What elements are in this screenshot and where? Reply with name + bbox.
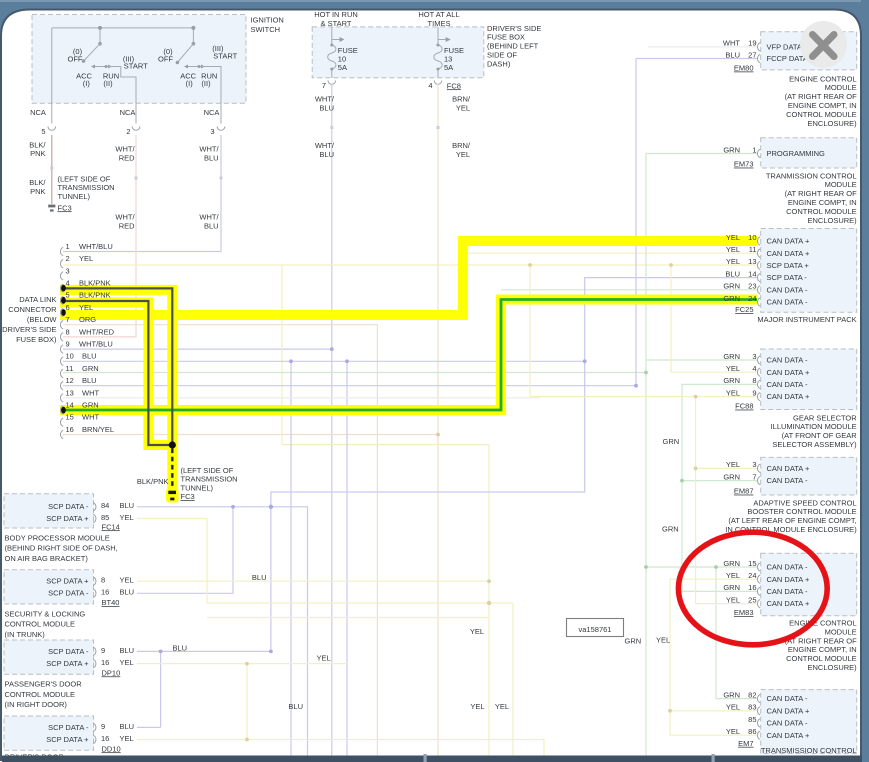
- svg-text:(IN TRUNK): (IN TRUNK): [5, 630, 46, 639]
- svg-text:BLU: BLU: [82, 376, 97, 385]
- wire BRN/YEL DLC pin16: [63, 434, 438, 436]
- svg-text:VFP DATA: VFP DATA: [767, 43, 802, 52]
- wire BLU EM80 pin27: [636, 59, 757, 386]
- svg-text:BLK/: BLK/: [29, 178, 46, 187]
- svg-text:(LEFT SIDE OF: (LEFT SIDE OF: [58, 174, 111, 183]
- svg-text:GRN: GRN: [723, 352, 740, 361]
- svg-text:85: 85: [748, 715, 756, 724]
- body processor module FC14 pin 84 BLU: [48, 501, 134, 511]
- svg-text:YEL: YEL: [726, 571, 740, 580]
- driver's door control module DD10 description: [5, 753, 65, 762]
- svg-text:WHT/: WHT/: [115, 145, 135, 154]
- svg-text:9: 9: [752, 388, 756, 397]
- wire GRN EM83 pin15 branch: [646, 566, 757, 568]
- junction YEL SCP plus: [245, 579, 491, 741]
- svg-text:CAN DATA +: CAN DATA +: [767, 575, 810, 584]
- ignition switch 2 pivot: [191, 26, 195, 46]
- svg-text:2: 2: [126, 127, 130, 136]
- ground FC3 2 labels: [137, 466, 238, 501]
- DLC pin 13 WHT: [60, 388, 99, 402]
- wire ORG DLC pin7: [63, 325, 377, 756]
- junction BLU door modules: [159, 650, 273, 654]
- svg-text:9: 9: [101, 646, 105, 655]
- major instrument pack connector FC25 pin BLU 14: [725, 269, 807, 282]
- svg-text:25: 25: [748, 595, 756, 604]
- passenger's door control module DP10 dashed box: [4, 640, 94, 674]
- svg-text:YEL: YEL: [120, 513, 134, 522]
- passenger's door control module DP10 pin 16 YEL: [46, 658, 134, 668]
- svg-text:19: 19: [748, 39, 756, 48]
- svg-text:CONTROL MODULE: CONTROL MODULE: [786, 207, 857, 216]
- svg-text:YEL: YEL: [120, 576, 134, 585]
- svg-text:YEL: YEL: [317, 653, 331, 662]
- NCA label pin 5: [30, 108, 46, 117]
- ignition switch 1 labels: [68, 47, 149, 88]
- major instrument pack connector FC25 pin YEL 11: [726, 245, 810, 258]
- svg-text:EM73: EM73: [734, 160, 754, 169]
- svg-text:5A: 5A: [338, 63, 347, 72]
- svg-text:14: 14: [66, 401, 74, 410]
- svg-text:13: 13: [748, 257, 756, 266]
- svg-text:HOT AT ALL: HOT AT ALL: [418, 10, 459, 19]
- svg-text:SIDE OF: SIDE OF: [487, 51, 517, 60]
- svg-text:YEL: YEL: [726, 364, 740, 373]
- adaptive speed control booster control module EM87 pin YEL 3: [726, 460, 810, 473]
- svg-text:SCP DATA +: SCP DATA +: [46, 577, 89, 586]
- svg-text:YEL: YEL: [456, 150, 470, 159]
- svg-text:12: 12: [66, 376, 74, 385]
- svg-text:BT40: BT40: [102, 598, 120, 607]
- svg-text:BLU: BLU: [120, 588, 135, 597]
- svg-text:GRN: GRN: [723, 294, 740, 303]
- DLC pin 5 terminal: [61, 297, 66, 304]
- DLC pin 7 ORG: [60, 315, 96, 329]
- gear selector illumination module FC88 pin GRN 8: [723, 376, 808, 389]
- svg-text:YEL: YEL: [726, 245, 740, 254]
- svg-text:YEL: YEL: [456, 103, 470, 112]
- svg-text:NCA: NCA: [204, 108, 220, 117]
- svg-text:16: 16: [101, 658, 109, 667]
- wire GRN FC25 pin23 branch: [501, 289, 757, 291]
- svg-text:16: 16: [101, 588, 109, 597]
- svg-text:TRANMISSION CONTROL: TRANMISSION CONTROL: [766, 171, 857, 180]
- svg-text:YEL: YEL: [726, 233, 740, 242]
- major instrument pack connector FC25 dashed box: [761, 229, 857, 313]
- highlight YEL halo CAN- GRN wire: [60, 300, 757, 411]
- svg-text:7: 7: [752, 472, 756, 481]
- svg-text:GRN: GRN: [82, 364, 99, 373]
- svg-text:1: 1: [66, 242, 70, 251]
- transmission control module EM7 pin GRN 82: [723, 690, 808, 703]
- svg-text:3: 3: [66, 266, 70, 275]
- svg-text:YEL: YEL: [470, 627, 484, 636]
- ignition connector hook pin 3: [210, 127, 224, 137]
- label BRN/YEL fuse lower: [452, 141, 471, 159]
- svg-text:BLK/PNK: BLK/PNK: [79, 279, 111, 288]
- connector EM7 label: [738, 739, 753, 748]
- svg-text:ENCLOSURE): ENCLOSURE): [808, 119, 858, 128]
- connector DD10 label: [102, 744, 121, 753]
- junction BLU pin12 bus: [634, 384, 638, 388]
- svg-text:SCP DATA +: SCP DATA +: [46, 514, 89, 523]
- connector DP10 label: [102, 668, 121, 677]
- engine control module U-EM80 pin WHT 19: [723, 39, 802, 52]
- gear selector illumination module FC88 pin YEL 4: [726, 364, 810, 377]
- svg-text:EM80: EM80: [734, 64, 754, 73]
- svg-text:23: 23: [748, 282, 756, 291]
- svg-text:BRN/: BRN/: [452, 141, 471, 150]
- svg-text:BLU: BLU: [204, 221, 219, 230]
- svg-text:(AT LEFT REAR OF ENGINE COMPT,: (AT LEFT REAR OF ENGINE COMPT,: [728, 516, 856, 525]
- svg-text:5: 5: [66, 291, 70, 300]
- highlight YEL band ground drop: [167, 445, 177, 490]
- svg-text:15: 15: [66, 413, 74, 422]
- driver's door control module DD10 pin 16 YEL: [46, 734, 134, 744]
- wire GRN FC88 pin8 to EM87 pin7 to EM83 pin16: [682, 384, 757, 591]
- svg-text:MODULE: MODULE: [825, 180, 857, 189]
- svg-text:15: 15: [748, 559, 756, 568]
- adaptive speed control booster control module EM87 description: [725, 498, 857, 534]
- wire YEL FC88 pin9 to EM87 pin3 to EM83 pin25: [530, 265, 757, 604]
- svg-text:WHT: WHT: [82, 388, 99, 397]
- svg-text:ENGINE COMPT, IN: ENGINE COMPT, IN: [788, 198, 857, 207]
- fuse 13 element: [434, 27, 451, 78]
- svg-text:WHT/: WHT/: [315, 95, 335, 104]
- svg-text:SCP DATA -: SCP DATA -: [48, 502, 89, 511]
- DLC pin 6 terminal: [61, 309, 66, 316]
- engine control module U-EM80 pin BLU 27: [725, 50, 807, 63]
- transmission control module programming U-EM73 description: [766, 171, 857, 225]
- svg-text:(LEFT SIDE OF: (LEFT SIDE OF: [181, 466, 234, 475]
- svg-text:WHT/: WHT/: [115, 213, 135, 222]
- svg-text:CAN DATA +: CAN DATA +: [767, 392, 810, 401]
- wire YEL BT40 pin8: [137, 580, 489, 582]
- svg-text:FC14: FC14: [102, 522, 120, 531]
- connector BT40 label: [102, 598, 120, 607]
- svg-text:BLU: BLU: [204, 153, 219, 162]
- svg-text:(I): (I): [83, 79, 91, 88]
- wire GRN EM83 to EM7 pin82: [716, 567, 757, 699]
- wire break markers: [50, 126, 439, 180]
- DLC pin 1 WHT/BLU: [60, 242, 112, 256]
- svg-text:IGNITION: IGNITION: [251, 16, 284, 25]
- ground FC3 transmission tunnel 2: [166, 489, 179, 503]
- svg-text:BLK/: BLK/: [29, 140, 46, 149]
- wire WHT/BLU DLC pin9: [63, 348, 332, 350]
- svg-text:START: START: [213, 51, 237, 60]
- svg-text:24: 24: [748, 571, 756, 580]
- svg-text:SCP DATA -: SCP DATA -: [48, 647, 89, 656]
- svg-text:CAN DATA -: CAN DATA -: [767, 356, 808, 365]
- svg-text:1: 1: [752, 145, 756, 154]
- wire YEL FC14 pin85: [137, 519, 207, 604]
- svg-text:OFF: OFF: [158, 54, 173, 63]
- svg-text:BLU: BLU: [120, 646, 135, 655]
- ground FC3 transmission tunnel 1: [48, 205, 55, 212]
- label YEL mid 1: [470, 627, 484, 636]
- svg-text:BLU: BLU: [725, 269, 740, 278]
- svg-text:va158761: va158761: [579, 625, 612, 634]
- svg-text:FCCP DATA: FCCP DATA: [767, 54, 808, 63]
- fuse box connector hook pin 7: [322, 81, 336, 91]
- junction BLU SCP minus: [231, 505, 273, 509]
- wire BLK/PNK ignition pin5 to ground: [51, 135, 53, 204]
- svg-text:CAN DATA -: CAN DATA -: [767, 380, 808, 389]
- DLC pin 16 BRN/YEL: [60, 425, 114, 439]
- svg-text:CAN DATA +: CAN DATA +: [767, 464, 810, 473]
- label YEL DP10 row: [317, 653, 331, 662]
- svg-text:5A: 5A: [444, 63, 453, 72]
- security and locking control module BT40 description: [5, 609, 86, 639]
- junction BLU pin10 bus: [289, 347, 586, 363]
- svg-text:CAN DATA +: CAN DATA +: [767, 599, 810, 608]
- wire YEL SCP data plus bus: [207, 603, 513, 756]
- fuse 10 element: [328, 27, 345, 78]
- svg-text:EM7: EM7: [738, 739, 753, 748]
- transmission control module EM7 description: [761, 746, 857, 755]
- svg-text:ENGINE CONTROL: ENGINE CONTROL: [789, 74, 857, 83]
- wire BLU FC14 pin84: [137, 506, 271, 508]
- svg-text:YEL: YEL: [726, 595, 740, 604]
- svg-text:24: 24: [748, 294, 756, 303]
- svg-text:MAJOR INSTRUMENT PACK: MAJOR INSTRUMENT PACK: [757, 315, 856, 324]
- svg-text:BODY PROCESSOR MODULE: BODY PROCESSOR MODULE: [5, 533, 110, 542]
- driver's door control module DD10 pin 9 BLU: [48, 722, 134, 732]
- wire YEL EM83 pin24 to EM7 pins 83 86: [670, 579, 757, 735]
- svg-text:MODULE: MODULE: [825, 83, 857, 92]
- wire BLU bus drop to DP10: [270, 507, 272, 652]
- label YEL mid 2: [470, 702, 484, 711]
- body processor module FC14 description: [5, 533, 118, 563]
- svg-text:YEL: YEL: [120, 658, 134, 667]
- transmission control module EM7 pin YEL 83: [726, 703, 810, 716]
- wire GRN DLC pin11: [63, 372, 646, 374]
- svg-text:DP10: DP10: [102, 668, 121, 677]
- major instrument pack connector FC25 pin GRN 24: [723, 294, 808, 307]
- svg-text:YEL: YEL: [79, 303, 93, 312]
- svg-text:GRN: GRN: [723, 583, 740, 592]
- connector EM83 label: [734, 608, 754, 617]
- major instrument pack connector FC25 pin YEL 13: [726, 257, 810, 270]
- ignition switch 2 blade: [176, 44, 194, 65]
- major instrument pack connector FC25 description: [757, 315, 856, 324]
- ignition switch 1 wiper arrow: [91, 65, 112, 69]
- svg-text:5: 5: [41, 127, 45, 136]
- highlight YEL band DLC pin4 BLK/PNK: [60, 290, 172, 447]
- driver's side fuse box dashed box: [312, 27, 484, 78]
- svg-text:GRN: GRN: [723, 472, 740, 481]
- svg-text:14: 14: [748, 269, 756, 278]
- svg-text:TRANSMISSION: TRANSMISSION: [181, 475, 238, 484]
- svg-text:83: 83: [748, 703, 756, 712]
- svg-text:SCP DATA -: SCP DATA -: [48, 589, 89, 598]
- ignition switch 2 wiper arrow: [184, 65, 205, 69]
- DLC pin 8 WHT/RED: [60, 327, 114, 341]
- engine control module U-EM80 dashed box: [761, 32, 857, 70]
- svg-text:CAN DATA +: CAN DATA +: [767, 249, 810, 258]
- svg-text:BLU: BLU: [288, 702, 303, 711]
- junction YEL EM87 pin3: [436, 263, 697, 470]
- svg-text:CAN DATA +: CAN DATA +: [767, 237, 810, 246]
- svg-text:13: 13: [66, 388, 74, 397]
- label BLU riser 1: [252, 573, 267, 582]
- svg-text:DRIVER'S SIDE: DRIVER'S SIDE: [2, 325, 56, 334]
- svg-text:6: 6: [66, 303, 70, 312]
- transmission control module EM7 pin YEL 86: [726, 727, 810, 740]
- svg-text:DASH): DASH): [487, 59, 511, 68]
- svg-text:WHT: WHT: [723, 39, 740, 48]
- wire YEL DD10 pin16: [137, 740, 544, 757]
- svg-text:CONNECTOR: CONNECTOR: [8, 305, 57, 314]
- DLC pin 12 BLU: [60, 376, 96, 390]
- connector FC8 label: [447, 81, 461, 90]
- data link connector title: [2, 295, 57, 344]
- svg-text:11: 11: [66, 364, 74, 373]
- wire WHT EM80 pin19: [648, 46, 757, 48]
- ground FC3 1 labels: [29, 140, 114, 212]
- label WHT/RED upper: [115, 145, 135, 163]
- svg-text:GRN: GRN: [625, 637, 642, 646]
- svg-text:(AT RIGHT REAR OF: (AT RIGHT REAR OF: [785, 92, 858, 101]
- svg-text:YEL: YEL: [726, 703, 740, 712]
- label BRN/YEL fuse upper: [452, 95, 471, 113]
- svg-text:(BELOW: (BELOW: [27, 315, 58, 324]
- svg-text:BLU: BLU: [82, 352, 97, 361]
- svg-text:WHT/BLU: WHT/BLU: [79, 242, 113, 251]
- svg-text:EM83: EM83: [734, 608, 754, 617]
- svg-text:SELECTOR ASSEMBLY): SELECTOR ASSEMBLY): [772, 440, 857, 449]
- svg-text:BLU: BLU: [173, 643, 188, 652]
- svg-text:27: 27: [748, 50, 756, 59]
- junction GRN EM87 pin7: [680, 479, 684, 483]
- svg-text:(II): (II): [201, 79, 211, 88]
- fuse box description: [487, 24, 541, 69]
- label WHT/BLU ign upper: [199, 145, 219, 163]
- DLC pin 2 YEL: [60, 254, 93, 268]
- svg-text:ENCLOSURE): ENCLOSURE): [808, 216, 858, 225]
- svg-text:ENGINE COMPT, IN: ENGINE COMPT, IN: [788, 101, 857, 110]
- label WHT/BLU fuse upper: [315, 95, 335, 113]
- svg-text:PNK: PNK: [30, 187, 45, 196]
- svg-text:PASSENGER'S DOOR: PASSENGER'S DOOR: [5, 680, 83, 689]
- svg-text:YEL: YEL: [79, 254, 93, 263]
- svg-text:ENCLOSURE): ENCLOSURE): [808, 663, 858, 672]
- svg-text:(BEHIND LEFT: (BEHIND LEFT: [487, 42, 539, 51]
- junction GRN EM83 pin15: [644, 371, 718, 569]
- DLC pin 14 terminal: [61, 407, 66, 414]
- svg-text:YEL: YEL: [726, 460, 740, 469]
- svg-text:(AT FRONT OF GEAR: (AT FRONT OF GEAR: [782, 431, 858, 440]
- DLC pin 3: [60, 266, 69, 280]
- engine control module EM83 description: [785, 619, 858, 673]
- svg-text:3: 3: [210, 127, 214, 136]
- svg-text:CAN DATA -: CAN DATA -: [767, 587, 808, 596]
- svg-text:FC88: FC88: [735, 402, 753, 411]
- svg-text:CAN DATA +: CAN DATA +: [767, 706, 810, 715]
- svg-text:FC25: FC25: [735, 305, 753, 314]
- label BLU riser 2: [288, 702, 303, 711]
- svg-text:10: 10: [748, 233, 756, 242]
- svg-text:GEAR SELECTOR: GEAR SELECTOR: [793, 413, 857, 422]
- svg-text:YEL: YEL: [120, 734, 134, 743]
- svg-text:TUNNEL): TUNNEL): [58, 192, 91, 201]
- driver's door control module DD10 dashed box: [4, 716, 94, 750]
- svg-text:PROGRAMMING: PROGRAMMING: [767, 149, 826, 158]
- svg-text:ADAPTIVE SPEED CONTROL: ADAPTIVE SPEED CONTROL: [753, 498, 856, 507]
- svg-text:WHT: WHT: [82, 413, 99, 422]
- wire YEL FC25 pin11: [463, 252, 757, 254]
- svg-text:BLU: BLU: [120, 722, 135, 731]
- svg-text:GRN: GRN: [723, 282, 740, 291]
- svg-text:CAN DATA -: CAN DATA -: [767, 719, 808, 728]
- svg-text:16: 16: [101, 734, 109, 743]
- svg-text:FUSE BOX): FUSE BOX): [16, 335, 57, 344]
- close button: [800, 21, 847, 68]
- adaptive speed control booster control module EM87 dashed box: [761, 457, 857, 495]
- label YEL riser: [656, 636, 670, 645]
- svg-text:(I): (I): [186, 79, 194, 88]
- bottom scrollbar: [2, 754, 862, 762]
- connector FC25 label: [735, 305, 753, 314]
- wire YEL pin2 riser: [282, 265, 489, 756]
- svg-text:BLK/PNK: BLK/PNK: [79, 291, 111, 300]
- wire GRN EM73 pin1 riser: [646, 154, 757, 757]
- connector EM80 label: [734, 64, 754, 73]
- svg-text:SCP DATA +: SCP DATA +: [46, 659, 89, 668]
- wire GRN DLC pin14 to FC25 pin24 CAN-: [60, 300, 757, 411]
- svg-text:CONTROL MODULE: CONTROL MODULE: [786, 654, 857, 663]
- svg-text:GRN: GRN: [723, 376, 740, 385]
- gear selector illumination module FC88 description: [771, 413, 858, 449]
- DLC pin 9 WHT/BLU: [60, 340, 112, 354]
- svg-text:CAN DATA +: CAN DATA +: [767, 731, 810, 740]
- wire ignition switch 2 output: [198, 65, 222, 124]
- wire GRN FC88 pin3: [646, 359, 757, 361]
- svg-text:CAN DATA -: CAN DATA -: [767, 298, 808, 307]
- DLC pin 15 WHT: [60, 413, 99, 427]
- svg-text:DRIVER'S SIDE: DRIVER'S SIDE: [487, 24, 541, 33]
- svg-text:4: 4: [752, 364, 756, 373]
- body processor module FC14 pin 85 YEL: [46, 513, 134, 523]
- svg-text:BLU: BLU: [252, 573, 267, 582]
- engine control module EM83 pin YEL 24: [726, 571, 810, 584]
- engine control module EM83 dashed box: [761, 553, 857, 616]
- svg-text:YEL: YEL: [726, 727, 740, 736]
- svg-text:FC8: FC8: [447, 81, 461, 90]
- svg-text:BRN/YEL: BRN/YEL: [82, 425, 114, 434]
- gear selector illumination module FC88 pin GRN 3: [723, 352, 808, 365]
- engine control module EM83 pin YEL 25: [726, 595, 810, 608]
- svg-text:3: 3: [752, 460, 756, 469]
- svg-text:8: 8: [752, 376, 756, 385]
- wire BLU DP10 to DD10 pin9: [137, 651, 161, 727]
- svg-text:BLU: BLU: [319, 150, 334, 159]
- svg-text:OFF: OFF: [68, 54, 83, 63]
- label YEL mid 3: [495, 702, 509, 711]
- wire ignition bus: [52, 27, 194, 29]
- svg-text:BLU: BLU: [725, 50, 740, 59]
- svg-text:11: 11: [749, 245, 757, 254]
- svg-text:PNK: PNK: [30, 149, 45, 158]
- svg-text:CAN DATA +: CAN DATA +: [767, 368, 810, 377]
- svg-text:4: 4: [428, 81, 432, 90]
- svg-text:GRN: GRN: [663, 437, 680, 446]
- svg-text:7: 7: [66, 315, 70, 324]
- svg-text:BLU: BLU: [319, 103, 334, 112]
- wire WHT/BLU fuse10 riser: [331, 84, 333, 757]
- wire BRN/YEL fuse13 riser: [437, 84, 439, 757]
- highlight YEL band DLC pin6 CAN+ wire: [60, 241, 757, 315]
